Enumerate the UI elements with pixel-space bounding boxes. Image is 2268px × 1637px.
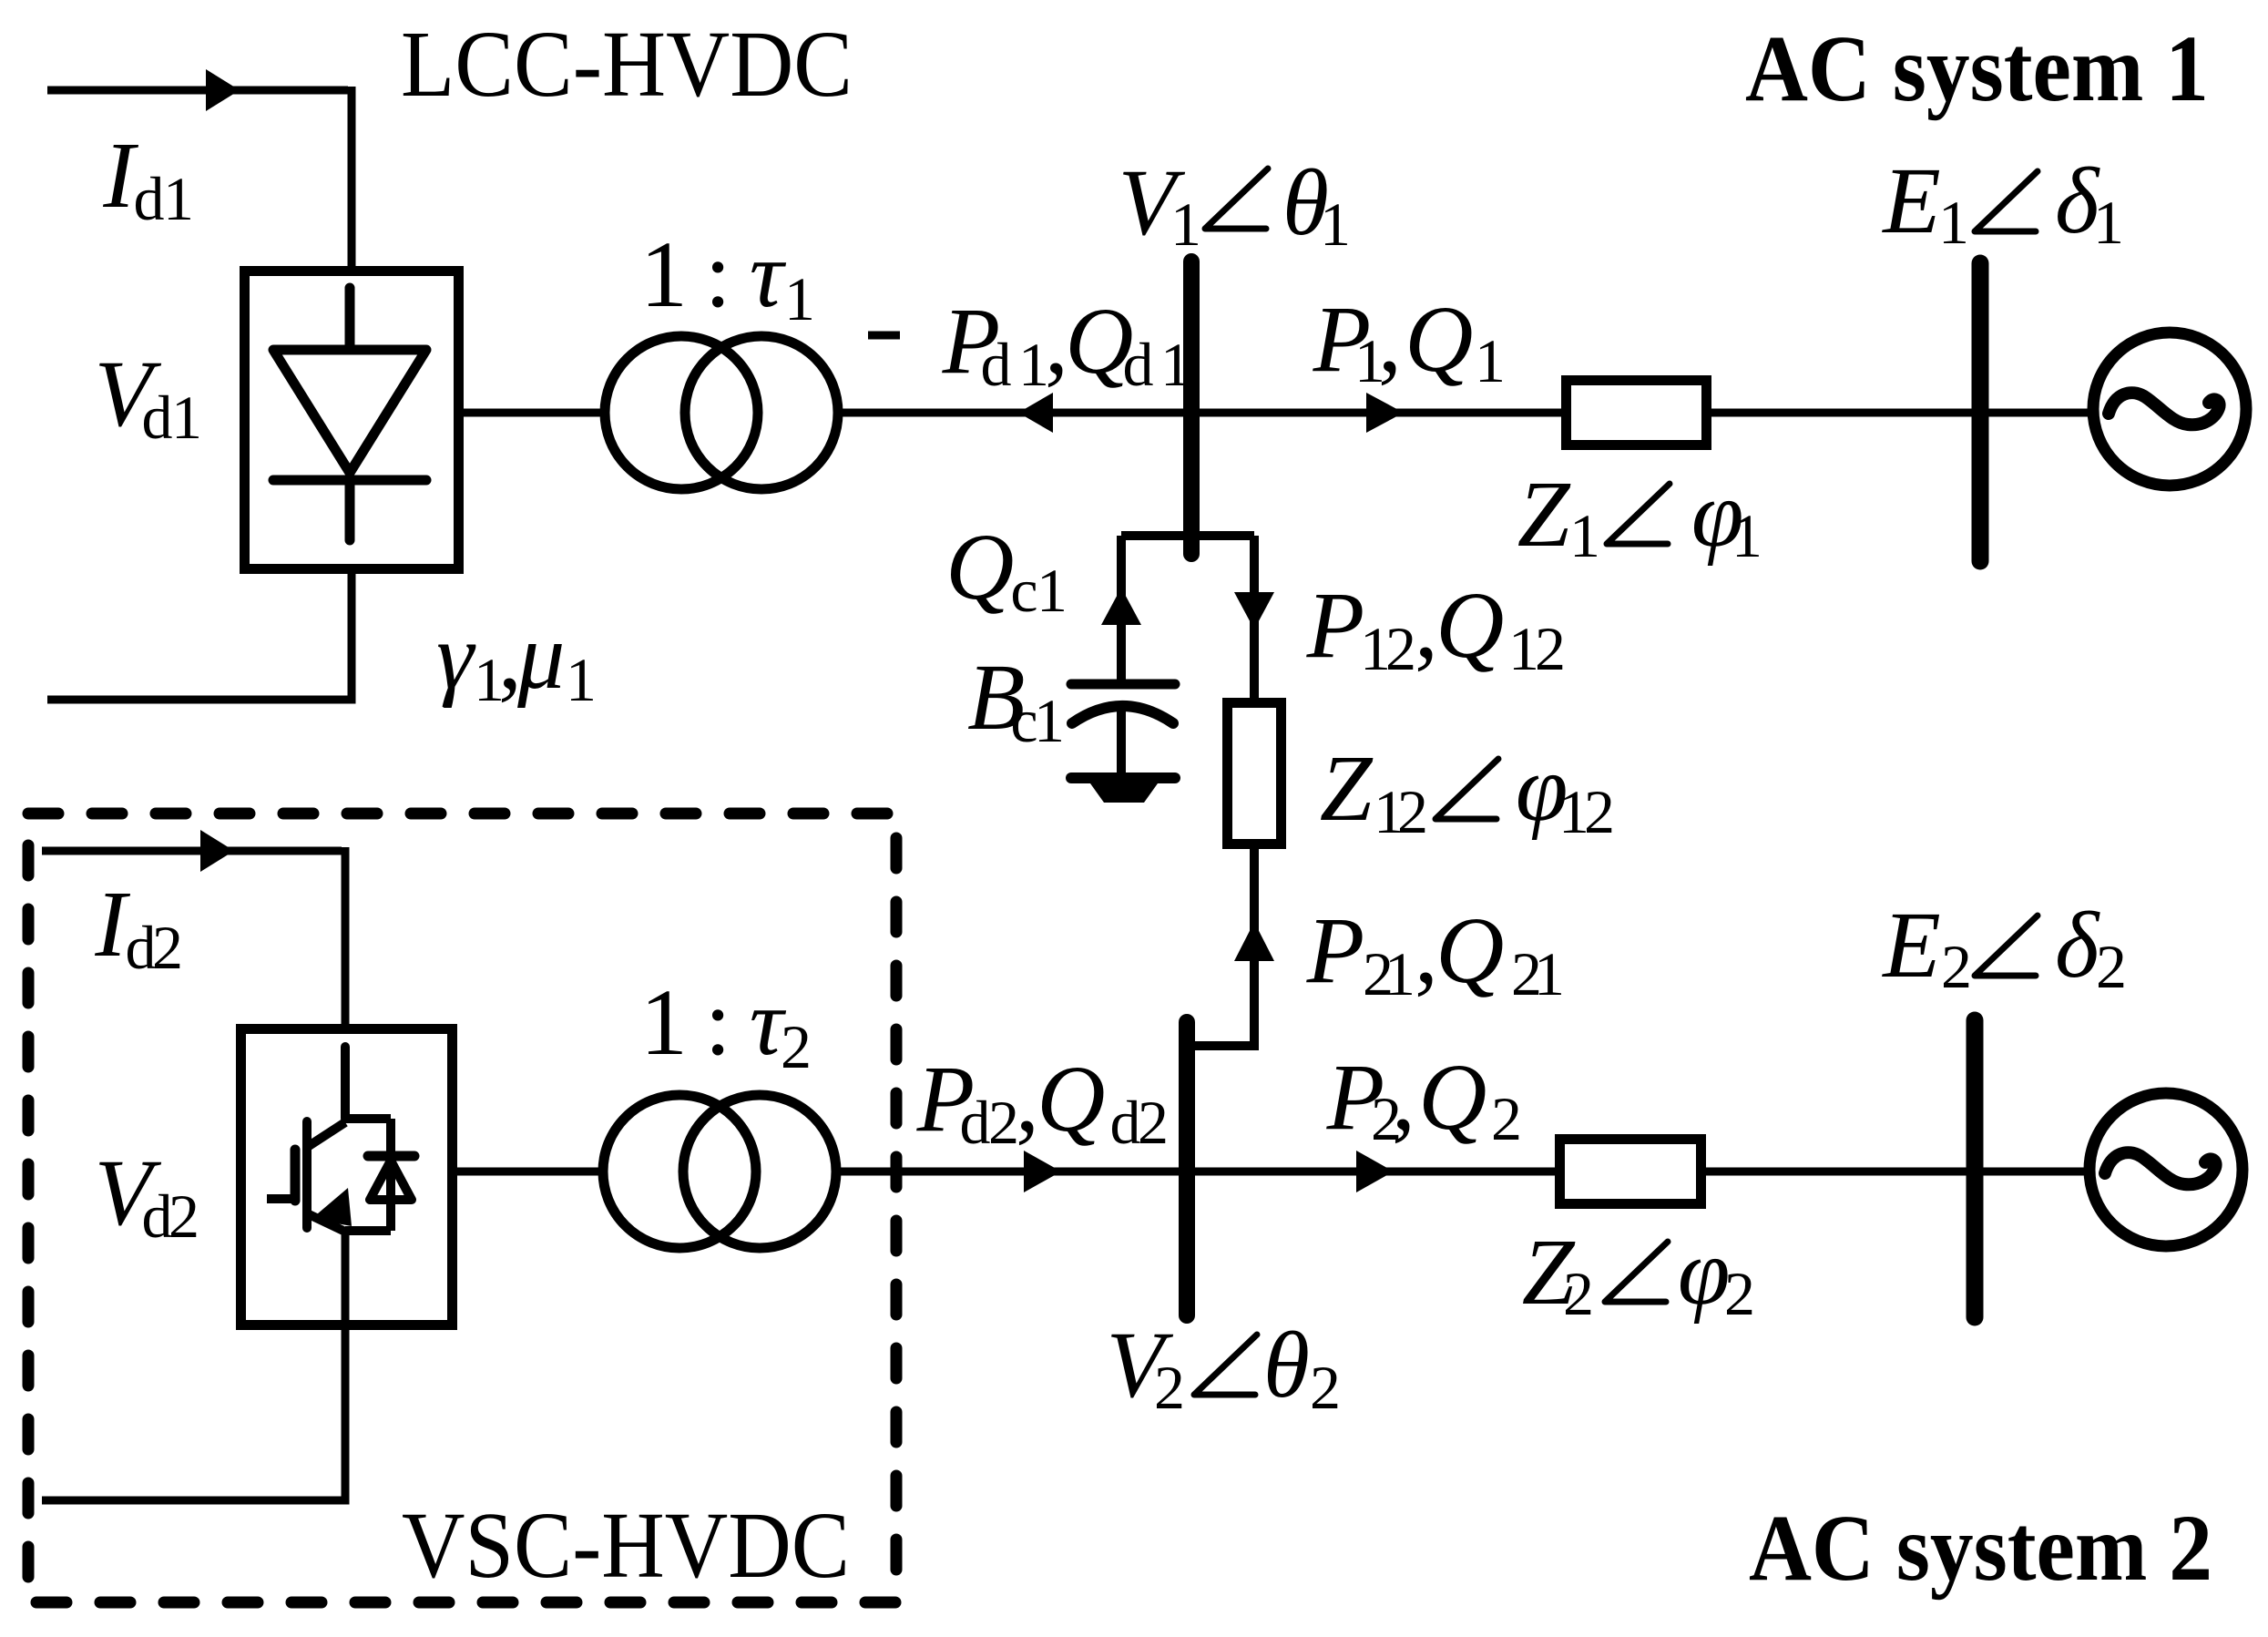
wire vertical into LCC converter [348, 87, 356, 266]
svg-text:LCC-HVDC: LCC-HVDC [401, 12, 853, 117]
IGBT emitter arrow [312, 1188, 352, 1226]
IGBT collector stub [341, 1047, 350, 1119]
AC source 2 sine [2105, 1152, 2216, 1184]
svg-text:1: 1 [1475, 326, 1506, 395]
wire LCC bottom [47, 574, 352, 700]
arrow P21 up [1234, 922, 1274, 961]
svg-text:2: 2 [1385, 614, 1416, 683]
svg-text:1: 1 [1534, 939, 1565, 1008]
svg-text:P: P [1306, 898, 1365, 1003]
svg-text:E: E [1881, 893, 1941, 998]
wire VSC bottom [42, 1231, 345, 1500]
svg-text:2: 2 [152, 913, 183, 982]
svg-text:μ: μ [516, 604, 565, 709]
transformer T2 circle A [603, 1095, 756, 1248]
arrow Pd1 flow left [1018, 393, 1053, 433]
svg-text:2: 2 [1138, 1088, 1169, 1157]
angle symbol Z1 [1607, 484, 1670, 544]
bus V1 [1183, 261, 1200, 554]
ground bar [1071, 772, 1175, 783]
svg-text:τ: τ [750, 222, 787, 327]
svg-text:1: 1 [1160, 330, 1191, 399]
svg-text:d: d [1110, 1088, 1141, 1157]
IGBT emitter diagonal [309, 1214, 345, 1232]
svg-text:Q: Q [1405, 287, 1473, 392]
svg-text:1: 1 [171, 383, 202, 452]
converter box LCC [245, 271, 459, 569]
dashed enclosure VSC-HVDC [28, 813, 896, 1602]
bus E1 [1972, 263, 1989, 561]
svg-text:Z: Z [1320, 736, 1374, 841]
angle symbol V1 [1205, 169, 1268, 229]
svg-text:θ: θ [1263, 1313, 1310, 1417]
svg-text:d: d [1123, 330, 1154, 399]
arrow Qc1 up [1101, 588, 1141, 625]
svg-text:d: d [134, 164, 165, 233]
svg-text:2: 2 [988, 1088, 1019, 1157]
minus sign Pd1 [868, 332, 900, 340]
svg-text:c: c [1010, 556, 1037, 625]
wire Z12 branch upper [1250, 536, 1259, 698]
wire vertical into VSC converter [342, 847, 350, 1024]
svg-text::: : [705, 970, 731, 1075]
wire AC line 2 [837, 1168, 2090, 1176]
wire shunt capacitor branch [1117, 536, 1126, 684]
svg-text:VSC-HVDC: VSC-HVDC [402, 1493, 850, 1598]
bus E2 [1967, 1020, 1984, 1317]
svg-text:AC system 2: AC system 2 [1749, 1496, 2212, 1601]
svg-text:,: , [1415, 573, 1438, 678]
impedance Z2 box [1560, 1140, 1701, 1204]
thyristor cathode bar [273, 476, 426, 486]
svg-text:2: 2 [2096, 932, 2127, 1001]
wire VSC to transformer T2 [457, 1168, 605, 1176]
IGBT channel bar [302, 1121, 312, 1228]
svg-text:Q: Q [945, 515, 1014, 619]
wire top-left DC input [47, 87, 348, 95]
IGBT bottom link from diode [345, 1226, 391, 1235]
capacitor Bc1 top plate [1071, 680, 1175, 690]
svg-text:Q: Q [1435, 573, 1504, 678]
svg-text:2: 2 [1941, 932, 1972, 1001]
converter box VSC [241, 1029, 453, 1325]
AC source 1 circle [2093, 333, 2246, 486]
impedance Z12 box [1228, 703, 1282, 844]
arrow P1 flow right [1366, 393, 1404, 433]
svg-text:AC system 1: AC system 1 [1745, 16, 2209, 121]
IGBT gate lead [267, 1194, 297, 1203]
svg-text:2: 2 [1724, 1259, 1755, 1328]
arrow Id1 direction [206, 69, 240, 111]
svg-text:δ: δ [2055, 893, 2100, 998]
wire shunt connector at bus V1 [1121, 531, 1254, 540]
svg-text:2: 2 [169, 1182, 199, 1251]
svg-text:Z: Z [1517, 462, 1571, 567]
IGBT top link to diode [345, 1119, 391, 1156]
AC source 2 circle [2089, 1093, 2242, 1246]
IGBT collector diagonal [309, 1122, 345, 1146]
svg-text:2: 2 [1397, 777, 1428, 846]
svg-text:2: 2 [1491, 1084, 1522, 1153]
svg-text:1: 1 [1034, 686, 1065, 755]
svg-text:d: d [981, 330, 1012, 399]
svg-text:Q: Q [1435, 898, 1504, 1003]
svg-text:Q: Q [1418, 1045, 1486, 1150]
IGBT gate bar [291, 1150, 301, 1201]
svg-text:2: 2 [1310, 1353, 1341, 1422]
AC source 1 sine [2109, 393, 2220, 425]
capacitor Bc1 curved plate [1072, 706, 1173, 723]
svg-text:,: , [1415, 898, 1438, 1003]
capacitor stem [1117, 706, 1126, 772]
svg-text::: : [705, 222, 731, 327]
svg-text:P: P [1306, 573, 1365, 678]
transformer T1 circle A [605, 336, 758, 489]
svg-text:2: 2 [1154, 1353, 1185, 1422]
svg-text:1: 1 [566, 645, 597, 714]
svg-text:γ: γ [436, 604, 476, 709]
svg-text:1: 1 [163, 164, 194, 233]
svg-text:Q: Q [1037, 1047, 1105, 1151]
svg-text:d: d [142, 383, 173, 452]
svg-text:1: 1 [1384, 939, 1415, 1008]
arrow Pd2 flow right [1024, 1151, 1061, 1192]
svg-text:2: 2 [781, 1012, 812, 1081]
svg-text:2: 2 [1584, 777, 1615, 846]
diode lead [386, 1156, 395, 1231]
wire LCC to transformer T1 [464, 409, 607, 417]
svg-text:1: 1 [2093, 188, 2124, 257]
transformer T2 circle B [683, 1095, 836, 1248]
bus V2 [1179, 1022, 1195, 1315]
angle symbol E1 [1975, 171, 2038, 231]
arrow Id2 direction [200, 830, 234, 872]
angle symbol Z12 [1435, 759, 1498, 819]
wire top DC input VSC [42, 847, 342, 855]
wire AC line 1 [839, 409, 2094, 417]
svg-text:,: , [1378, 287, 1402, 392]
svg-text:d: d [960, 1088, 991, 1157]
svg-text:1: 1 [784, 264, 815, 333]
svg-text:2: 2 [1535, 614, 1566, 683]
svg-text:1: 1 [1170, 189, 1201, 259]
impedance Z1 box [1567, 381, 1707, 445]
svg-text:1: 1 [1320, 189, 1351, 259]
transformer T1 circle B [685, 336, 838, 489]
thyristor cathode stub [345, 480, 355, 540]
svg-text:E: E [1881, 148, 1941, 253]
arrow P12 down [1234, 592, 1274, 629]
diode cathode bar [368, 1151, 414, 1161]
svg-text:1: 1 [1938, 188, 1969, 257]
thyristor anode stub [345, 288, 355, 350]
angle symbol V2 [1194, 1335, 1257, 1395]
svg-text:1: 1 [1732, 501, 1762, 570]
svg-text:1: 1 [640, 970, 688, 1075]
svg-text:1: 1 [1569, 501, 1600, 570]
thyristor triangle [273, 350, 426, 473]
svg-text:1: 1 [1037, 556, 1068, 625]
diode triangle [370, 1161, 412, 1200]
angle symbol Z2 [1605, 1242, 1668, 1302]
svg-text:,: , [1392, 1045, 1415, 1150]
angle symbol E2 [1975, 916, 2038, 976]
svg-text:,: , [1016, 1047, 1039, 1151]
arrow P2 flow right [1356, 1151, 1394, 1192]
wire Z12 branch lower [1187, 849, 1254, 1046]
svg-text:2: 2 [1563, 1259, 1594, 1328]
ground wedge [1090, 783, 1158, 803]
svg-text:1: 1 [640, 222, 688, 327]
svg-text:φ: φ [1678, 1220, 1731, 1325]
